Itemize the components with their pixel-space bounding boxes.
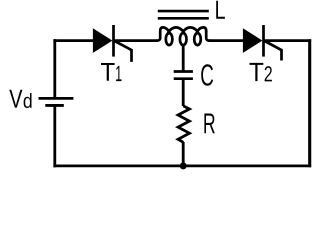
wire T1 cathode to coil <box>114 39 158 42</box>
wire left vertical below battery <box>53 105 56 167</box>
wire bottom horizontal <box>53 164 311 167</box>
label T2 <box>250 63 264 81</box>
inductor L loop 2 <box>180 33 187 45</box>
battery Vd plate long <box>39 97 74 100</box>
thyristor T2 gate <box>265 41 282 61</box>
inductor L coil <box>156 27 210 40</box>
inductor L loop 1 <box>166 33 173 45</box>
thyristor T2 triangle <box>243 28 263 53</box>
wire coil tap to capacitor <box>182 44 185 72</box>
label L <box>216 1 225 19</box>
label R <box>204 114 214 134</box>
inductor L loop 3 <box>194 33 201 45</box>
thyristor T1 cathode bar <box>112 25 115 57</box>
label Vd <box>9 90 22 108</box>
thyristor T1 gate <box>115 41 132 62</box>
thyristor T1 triangle <box>93 28 113 53</box>
wire right vertical <box>308 39 311 167</box>
label T1 <box>101 63 115 81</box>
capacitor C plate top <box>174 70 193 73</box>
wire top-left horizontal <box>53 39 94 42</box>
thyristor T2 cathode bar <box>262 25 265 57</box>
wire coil to T2 anode <box>210 39 245 42</box>
wire resistor to bottom junction <box>182 142 185 166</box>
wire T2 cathode to top-right corner <box>264 39 312 42</box>
label C <box>201 64 213 86</box>
resistor R zigzag <box>178 106 189 142</box>
inductor L core line upper <box>158 10 209 13</box>
capacitor C plate bottom <box>174 77 193 80</box>
junction node dot <box>180 162 187 169</box>
inductor L core line lower <box>158 17 209 20</box>
wire capacitor to resistor <box>182 79 185 106</box>
wire left vertical above battery <box>53 39 56 98</box>
battery Vd plate short <box>45 104 64 107</box>
